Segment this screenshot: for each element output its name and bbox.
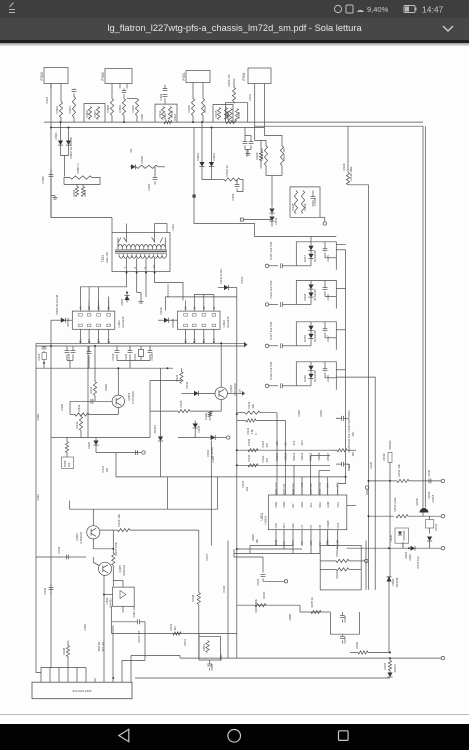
svg-text:C627: C627: [205, 553, 209, 560]
ground G2: [245, 151, 250, 155]
svg-text:R6115: R6115: [309, 452, 313, 460]
capacitor C352b: [87, 346, 92, 368]
label C607: [343, 636, 347, 643]
wire x389 low2: [388, 590, 390, 652]
capacitor C340: [49, 169, 54, 183]
svg-text:9,40%: 9,40%: [367, 5, 389, 14]
label C606: [343, 615, 347, 622]
wire U601 pin b1: [275, 537, 277, 545]
wire U301 pin feeds: [89, 286, 109, 310]
transformer pin labels: [123, 264, 156, 268]
svg-text:ZD301: ZD301: [153, 424, 157, 433]
resistor R344: [248, 463, 258, 466]
wire cn to right: [131, 655, 180, 658]
svg-text:F304: F304: [242, 72, 246, 80]
wire D319 out: [311, 328, 346, 331]
svg-text:R308: R308: [106, 104, 110, 112]
label mid k: [239, 388, 242, 392]
wire frame right: [422, 126, 424, 507]
svg-text:C631 1uF: C631 1uF: [416, 555, 420, 568]
resistor R316: [191, 88, 194, 122]
svg-text:COMP: COMP: [326, 520, 330, 528]
diode D317a: [308, 241, 313, 253]
wire frame right inner: [424, 126, 426, 507]
resistor R302 on bus: [226, 120, 236, 123]
net box R345: [62, 457, 74, 469]
svg-text:C614: C614: [210, 663, 214, 670]
svg-text:5V: 5V: [284, 442, 288, 445]
label R319: [226, 110, 230, 117]
wire q305 base: [36, 556, 86, 558]
resistor R350: [232, 78, 235, 103]
resistor R312: [168, 106, 171, 119]
svg-text:IN1: IN1: [282, 482, 286, 487]
label R625: [251, 533, 259, 543]
resistor R602: [320, 559, 361, 562]
svg-text:C301: C301: [45, 96, 49, 103]
diode D318b: [296, 292, 313, 304]
label R347: [114, 541, 118, 555]
svg-text:CMP: CMP: [336, 539, 340, 545]
label R604: [254, 598, 258, 612]
label R606: [355, 641, 359, 648]
label R316b: [191, 594, 195, 601]
svg-text:R357 0: R357 0: [76, 163, 80, 173]
wire u feeds: [286, 420, 338, 495]
box C pair: [320, 612, 360, 634]
IC U301: [72, 300, 115, 343]
capacitor C332: [66, 554, 68, 559]
relay box: [425, 516, 433, 533]
svg-text:R625: R625: [251, 533, 255, 540]
svg-text:EEL-25: EEL-25: [105, 251, 109, 262]
svg-text:C303: C303: [297, 409, 301, 416]
wire cap cluster: [67, 360, 73, 368]
svg-text:Q630: Q630: [427, 491, 431, 498]
wire cap pair: [245, 135, 251, 151]
wire T pin10 down: [155, 276, 183, 300]
capacitor C347: [136, 450, 138, 455]
wire frame tall 2: [336, 377, 375, 590]
capacitor C320: [336, 415, 349, 420]
connector CN601 pins: [41, 678, 131, 682]
svg-text:C211: C211: [211, 455, 215, 462]
svg-text:IN6: IN6: [300, 540, 304, 545]
svg-text:C6112: C6112: [284, 452, 288, 460]
diode D318a: [308, 280, 313, 292]
svg-text:R358: R358: [72, 189, 76, 196]
svg-text:R607: R607: [383, 662, 387, 669]
label C315: [269, 241, 273, 259]
svg-text:C324: C324: [256, 578, 260, 585]
resistor R606: [350, 650, 391, 653]
diode D320b: [296, 373, 313, 385]
capacitor C306: [235, 179, 240, 191]
svg-text:25V: 25V: [351, 431, 355, 436]
transistor Q305: [98, 562, 111, 575]
svg-text:IN4: IN4: [326, 482, 330, 487]
label R335: [179, 400, 183, 407]
resistor R343: [330, 448, 356, 451]
svg-text:C344: C344: [222, 585, 226, 592]
label R301: [163, 112, 167, 119]
label D302: [69, 137, 73, 158]
connector F304: [248, 68, 271, 141]
svg-text:REF: REF: [291, 522, 295, 528]
svg-text:R320: R320: [255, 152, 259, 159]
ground G3: [137, 292, 144, 303]
zener ZD601: [387, 670, 392, 677]
wire U601 pin b5: [310, 537, 312, 549]
label Q302: [229, 382, 237, 395]
IC U303 KIA431: [105, 580, 134, 612]
svg-text:C607: C607: [343, 636, 347, 643]
wire x51 bottom: [51, 430, 66, 603]
resistor R311: [161, 106, 164, 119]
svg-text:R311: R311: [158, 110, 162, 117]
wire U601 bottom bus1: [250, 545, 293, 549]
svg-text:ADJ: ADJ: [282, 522, 286, 528]
svg-text:R610 4k7: R610 4k7: [137, 630, 141, 642]
pin labels U302 top: [184, 306, 216, 309]
wire y611 trunk: [300, 605, 320, 612]
wire P303 drop: [50, 83, 52, 217]
svg-text:10k: 10k: [255, 538, 259, 543]
svg-text:D319: D319: [303, 334, 307, 341]
transformer secondary winding: [119, 254, 166, 258]
svg-text:Q630: Q630: [415, 498, 419, 505]
svg-text:R336: R336: [204, 412, 208, 419]
svg-text:R316: R316: [187, 104, 191, 112]
svg-text:470: 470: [265, 457, 269, 462]
pin arrows U301: [79, 341, 110, 343]
resistor R320: [259, 140, 262, 168]
wire y548: [347, 547, 441, 549]
svg-text:R301: R301: [163, 112, 167, 119]
wire D319 box: [296, 321, 336, 349]
label top1: [140, 113, 144, 120]
opto U630 box: [389, 528, 409, 543]
svg-text:C322: C322: [261, 455, 265, 462]
svg-text:C343 104: C343 104: [132, 605, 136, 617]
terminal T7: [361, 559, 368, 562]
diode D315: [193, 420, 199, 433]
capacitor C331: [63, 556, 71, 558]
svg-text:104: 104: [245, 486, 249, 491]
capacitor C342: [49, 584, 54, 594]
capacitor C614: [207, 660, 212, 671]
wire q2 right: [227, 391, 245, 396]
label C336: [111, 353, 115, 360]
pin labels U301 top: [78, 306, 110, 309]
capacitor C323: [336, 461, 349, 466]
svg-text:C304: C304: [159, 93, 163, 100]
zener ZD301: [158, 435, 163, 444]
wire T top feeds: [127, 223, 168, 232]
wire x199 drop: [198, 530, 200, 590]
svg-text:D307: D307: [120, 298, 124, 305]
wire loop613: [199, 633, 220, 660]
label R336: [204, 412, 208, 419]
wire x88 upper: [87, 346, 89, 438]
wire D320 out: [311, 368, 346, 371]
diode D313: [269, 216, 274, 226]
svg-text:R317: R317: [203, 104, 207, 112]
capacitor C308: [243, 127, 248, 149]
wire ladder bus right: [345, 249, 347, 476]
wire left elbow: [166, 223, 168, 232]
svg-text:SCL 6V: SCL 6V: [101, 641, 105, 651]
svg-text:D313: D313: [274, 217, 278, 224]
svg-text:C352: C352: [83, 623, 87, 630]
label ZD601: [393, 663, 397, 672]
terminal C318 in: [265, 384, 278, 387]
label R314 pair: [247, 401, 255, 408]
diode D319a: [308, 321, 313, 333]
wire u feed 1: [276, 412, 278, 494]
svg-text:R346 10k: R346 10k: [117, 513, 121, 526]
svg-text:D317: D317: [303, 254, 307, 261]
wire R313 down: [237, 179, 243, 191]
capacitor C322: [261, 455, 269, 462]
transistor Q303: [112, 395, 124, 407]
svg-text:P303: P303: [40, 72, 44, 80]
label R352: [237, 111, 241, 118]
resistor R314: [237, 411, 277, 414]
pin labels U302 bottom: [184, 338, 216, 340]
wire y548 link: [93, 530, 113, 549]
label D307: [120, 298, 124, 305]
wire ladder top right: [336, 243, 345, 245]
label R343: [347, 432, 351, 445]
wire y437 mid: [178, 433, 201, 437]
label ladder caps stack: [347, 425, 355, 470]
svg-text:9: 9: [143, 266, 147, 268]
wire x327 down: [328, 537, 336, 545]
capacitor C334: [65, 346, 70, 361]
resistor R335: [150, 409, 221, 412]
svg-text:R605 1k: R605 1k: [310, 596, 314, 607]
wire u feed mid: [311, 455, 331, 470]
resistor R301 on bus: [164, 120, 172, 123]
label C301: [45, 96, 49, 103]
diode D319b: [296, 333, 313, 345]
svg-text:R359: R359: [83, 189, 87, 196]
svg-text:C317 1uF 50V: C317 1uF 50V: [269, 321, 273, 339]
wire x160 drop: [160, 368, 162, 477]
capacitor C316: [281, 302, 297, 307]
wire U302 feed: [165, 296, 236, 310]
label C627: [205, 553, 209, 560]
capacitor C310: [311, 190, 316, 206]
label D320: [303, 370, 317, 382]
component X331: [139, 346, 144, 361]
svg-text:D604: D604: [404, 551, 408, 558]
svg-text:D310: D310: [159, 307, 163, 314]
svg-text:C313 104: C313 104: [166, 283, 170, 296]
wire U601 pin b4: [301, 537, 303, 545]
diode D314: [181, 390, 215, 395]
wire D2 merge: [202, 172, 212, 179]
svg-text:RLS4148: RLS4148: [313, 330, 317, 342]
svg-text:D318: D318: [303, 293, 307, 300]
label C316: [269, 280, 273, 298]
wire U601 pin b6: [319, 537, 321, 553]
svg-text:RLS4148: RLS4148: [313, 288, 317, 300]
label C313: [166, 283, 170, 296]
label left col: [36, 413, 40, 500]
wire bus C: [36, 367, 173, 369]
pin labels U601: [274, 481, 340, 487]
svg-text:R309: R309: [118, 104, 122, 112]
diode D311: [218, 284, 237, 289]
wire x221: [220, 343, 222, 387]
wire loop3: [155, 104, 177, 122]
svg-text:R342: R342: [247, 438, 251, 445]
wire x211 drop: [210, 440, 212, 545]
label R331: [89, 386, 93, 393]
svg-text:R603: R603: [335, 571, 339, 578]
diode D601: [386, 576, 391, 590]
svg-text:RT: RT: [309, 524, 313, 528]
label R307: [93, 109, 97, 117]
wire main bus: [44, 121, 423, 123]
resistor R342: [248, 448, 258, 451]
wire bus A: [36, 342, 244, 344]
label Q304: [75, 531, 83, 543]
label C315b: [326, 254, 330, 261]
terminal C317 in: [265, 344, 278, 347]
wire U302 topfeeds: [194, 294, 214, 300]
wire y480: [369, 479, 391, 481]
svg-text:KTC3198: KTC3198: [131, 390, 135, 403]
label R359: [83, 189, 87, 196]
resistor R327: [264, 135, 283, 175]
resistor R331: [93, 346, 96, 396]
label R302: [226, 112, 230, 119]
svg-text:KTA1023: KTA1023: [79, 531, 83, 543]
svg-text:RP302: RP302: [171, 318, 175, 327]
diode D304: [209, 127, 214, 172]
wire cn bracket: [50, 667, 86, 678]
label D601: [391, 577, 399, 587]
wire frame top: [255, 125, 423, 127]
svg-text:U630: U630: [389, 534, 393, 541]
label R317: [203, 104, 207, 112]
resistor R631: [390, 479, 441, 482]
svg-text:C620: C620: [369, 461, 373, 468]
wire x228: [227, 540, 229, 658]
label R315: [140, 155, 144, 163]
label bot mid: [262, 591, 292, 620]
wire cn risers: [36, 562, 145, 678]
pin labels U301 bottom: [78, 338, 110, 340]
svg-text:R326 47k: R326 47k: [260, 147, 264, 160]
label R316: [187, 104, 191, 112]
label R309: [118, 104, 122, 112]
label CN601: [73, 689, 92, 693]
svg-text:R340 100k: R340 100k: [349, 165, 353, 180]
terminal T8: [441, 656, 444, 659]
label R358: [72, 189, 76, 196]
label R608: [62, 647, 66, 654]
label R328: [291, 203, 295, 210]
label C306: [231, 193, 235, 200]
wire bus B: [36, 341, 248, 347]
resistor R608: [66, 640, 69, 667]
capacitor C309: [249, 135, 254, 149]
svg-text:R348: R348: [191, 594, 195, 601]
svg-text:D304: D304: [212, 152, 216, 160]
diode D312: [269, 208, 274, 215]
label d6 group: [401, 541, 405, 548]
wire D320 box: [296, 361, 336, 389]
svg-text:C306: C306: [231, 193, 235, 200]
svg-text:R303: R303: [55, 105, 59, 113]
wire y677 trunk right: [135, 677, 390, 679]
svg-text:P301: P301: [182, 72, 186, 80]
label D311: [219, 268, 223, 283]
label R612: [169, 623, 177, 630]
svg-text:C351: C351: [36, 493, 40, 500]
svg-text:R343 10k: R343 10k: [347, 432, 351, 445]
svg-text:R602 1k: R602 1k: [335, 545, 339, 556]
resistor R308: [110, 88, 113, 122]
svg-text:R330: R330: [342, 163, 346, 170]
label R333: [75, 421, 79, 428]
resistor R329: [301, 190, 304, 213]
wire q1 coll: [117, 368, 119, 395]
wire trunk x237 top: [236, 287, 238, 296]
svg-text:12V: 12V: [275, 440, 279, 445]
label R611: [183, 638, 187, 645]
svg-text:R313 1k: R313 1k: [225, 164, 229, 176]
svg-text:IN2: IN2: [291, 482, 295, 487]
svg-text:C312: C312: [171, 223, 175, 230]
capacitor C606: [340, 612, 345, 623]
svg-text:RLS4148: RLS4148: [313, 250, 317, 262]
diode D604: [408, 545, 415, 550]
wire y604 trunk: [237, 604, 300, 606]
capacitor C302: [72, 88, 77, 96]
wire D merge: [61, 150, 69, 176]
resistor R336: [208, 411, 211, 420]
label D304: [212, 152, 216, 160]
resistor R346: [100, 528, 199, 531]
svg-text:GND: GND: [326, 501, 330, 507]
label D314: [185, 381, 189, 388]
resistor R303: [59, 88, 62, 122]
svg-text:GND: GND: [274, 539, 278, 545]
wire U601 bottom bus2: [236, 548, 302, 554]
wire loop6: [290, 186, 320, 216]
svg-text:R331: R331: [89, 386, 93, 393]
svg-text:ZD601: ZD601: [393, 663, 397, 672]
capacitor C630: [429, 478, 431, 483]
label D317: [303, 250, 317, 262]
label top right caps: [416, 555, 420, 568]
svg-text:C319: C319: [347, 425, 351, 432]
wire left rail: [35, 343, 37, 562]
wire U601 bottom left: [234, 549, 263, 558]
wire mid join: [117, 360, 150, 368]
svg-text:R630: R630: [382, 453, 386, 460]
labels U601 feed column: [275, 439, 330, 460]
label Q305: [118, 564, 126, 575]
label frame tall: [349, 165, 353, 180]
terminal T3: [284, 579, 287, 582]
wire frame tall 1: [348, 184, 369, 589]
